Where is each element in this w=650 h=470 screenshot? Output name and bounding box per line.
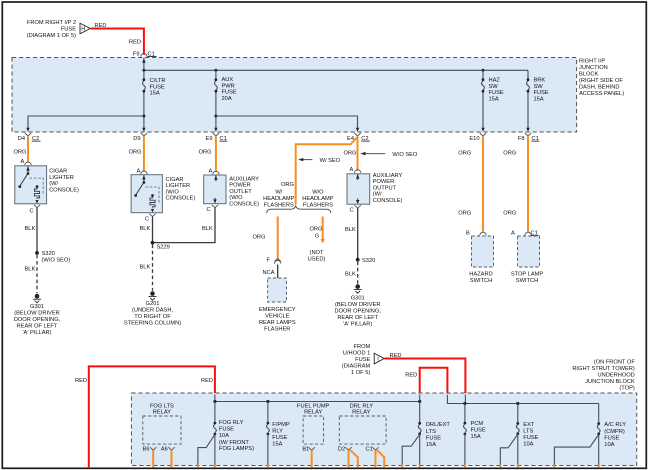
svg-text:VEHICLE: VEHICLE: [265, 314, 290, 320]
svg-text:BLK: BLK: [25, 226, 36, 232]
svg-text:FUSE: FUSE: [471, 428, 486, 434]
svg-text:'A' PILLAR): 'A' PILLAR): [343, 321, 372, 327]
wire ORG E4 branch to headlamp flashers: [296, 137, 358, 205]
svg-text:FUSE: FUSE: [604, 436, 619, 442]
svg-text:15A: 15A: [150, 91, 160, 97]
svg-text:B1: B1: [302, 447, 309, 453]
svg-text:15A: 15A: [489, 96, 499, 102]
svg-text:FOG LTS: FOG LTS: [150, 403, 174, 409]
svg-text:LIGHTER: LIGHTER: [166, 183, 191, 189]
wire BLK dashed to G201: [152, 245, 154, 291]
svg-text:BLK: BLK: [140, 265, 151, 271]
svg-text:LTS: LTS: [523, 429, 533, 435]
svg-text:RIGHT I/P: RIGHT I/P: [579, 59, 605, 65]
svg-text:FUSE: FUSE: [150, 84, 165, 90]
svg-text:(BELOW DRIVER: (BELOW DRIVER: [335, 302, 381, 308]
svg-text:POWER: POWER: [229, 183, 251, 189]
exit F8 / C1: [526, 128, 529, 132]
svg-text:ORG: ORG: [129, 150, 142, 156]
connector socket at F9 entry: [141, 54, 147, 57]
svg-text:DOOR OPENING,: DOOR OPENING,: [14, 317, 61, 323]
svg-text:CONSOLE): CONSOLE): [166, 196, 196, 202]
node junction entry: [142, 69, 145, 72]
svg-text:HEADLAMP: HEADLAMP: [302, 196, 333, 202]
hazard switch (dashed box): [472, 236, 494, 267]
svg-text:W/ SEO: W/ SEO: [320, 158, 341, 164]
svg-text:EMERGENCY: EMERGENCY: [259, 307, 296, 313]
svg-text:FUSE: FUSE: [426, 436, 441, 442]
svg-text:ORG: ORG: [458, 151, 471, 157]
svg-text:A: A: [209, 169, 213, 175]
wire red from triangle H to C1 entry: [91, 29, 144, 55]
svg-text:S229: S229: [157, 245, 170, 251]
svg-text:HEADLAMP: HEADLAMP: [263, 196, 294, 202]
svg-text:ORG: ORG: [310, 226, 323, 232]
svg-text:RIGHT STRUT TOWER): RIGHT STRUT TOWER): [572, 366, 635, 372]
svg-text:JUNCTION: JUNCTION: [579, 65, 608, 71]
svg-text:HAZ: HAZ: [489, 78, 501, 84]
svg-text:LIGHTER: LIGHTER: [49, 175, 74, 181]
svg-text:FUSE: FUSE: [61, 27, 76, 33]
svg-text:E9: E9: [206, 136, 213, 142]
svg-text:DRL/EXT: DRL/EXT: [426, 422, 451, 428]
svg-text:UNDERHOOD: UNDERHOOD: [598, 372, 635, 378]
wire ORG D4 to cigar lighter 1: [27, 137, 29, 163]
svg-text:E10: E10: [469, 136, 479, 142]
svg-text:RED: RED: [129, 40, 141, 46]
svg-text:ORG: ORG: [253, 234, 266, 240]
wire ORG to emergency flasher: [277, 217, 279, 261]
svg-text:U/HOOD 1: U/HOOD 1: [343, 351, 371, 357]
svg-text:(CMPR): (CMPR): [604, 429, 625, 435]
svg-text:FLASHERS: FLASHERS: [264, 203, 294, 209]
svg-text:FROM: FROM: [354, 344, 371, 350]
svg-text:F: F: [267, 258, 271, 264]
svg-text:DRL RLY: DRL RLY: [350, 403, 374, 409]
svg-text:A6: A6: [161, 447, 168, 453]
svg-text:REAR LAMPS: REAR LAMPS: [259, 320, 296, 326]
node junction below C/LTR fuse: [142, 115, 145, 118]
svg-text:G301: G301: [30, 304, 44, 310]
svg-text:SW: SW: [534, 84, 544, 90]
wire ORG E9 to aux power outlet: [215, 137, 217, 172]
splice S229: [151, 241, 155, 245]
svg-text:20A: 20A: [222, 96, 232, 102]
cigar lighter 1 (W/ CONSOLE) box: [15, 166, 47, 204]
wire ORG from A6: [171, 450, 173, 467]
stop lamp switch (dashed box): [518, 236, 540, 267]
svg-text:(BELOW DRIVER: (BELOW DRIVER: [14, 310, 60, 316]
svg-text:G301: G301: [351, 295, 365, 301]
annotation W/ SEO: [302, 159, 312, 161]
svg-text:BRK: BRK: [534, 78, 546, 84]
svg-text:FROM RIGHT I/P 2: FROM RIGHT I/P 2: [27, 20, 76, 26]
brace splitting the two options: [267, 206, 331, 213]
wire branch to D4: [28, 116, 144, 129]
svg-text:1 OF 5): 1 OF 5): [351, 370, 370, 376]
svg-text:DOOR OPENING,: DOOR OPENING,: [334, 308, 381, 314]
svg-text:F9: F9: [133, 51, 140, 57]
svg-text:POWER: POWER: [373, 179, 395, 185]
svg-text:BLK: BLK: [202, 226, 213, 232]
svg-text:HAZARD: HAZARD: [469, 271, 492, 277]
svg-text:ORG: ORG: [281, 182, 294, 188]
annotation W/O SEO: [365, 153, 386, 155]
svg-text:AUX: AUX: [222, 77, 234, 83]
svg-text:FUSE: FUSE: [222, 90, 237, 96]
fuse A/C RLY (CMPR) FUSE 10A: [598, 404, 600, 423]
exit D9: [142, 128, 145, 132]
svg-text:CONSOLE): CONSOLE): [229, 201, 259, 207]
svg-text:REAR OF LEFT: REAR OF LEFT: [337, 315, 378, 321]
fuse C/LTR FUSE 15A: [143, 70, 145, 78]
wire BLK from aux outlet joining S229: [154, 208, 215, 243]
node junction haz tap: [482, 69, 485, 72]
wire red loop: [420, 368, 448, 396]
svg-text:ORG: ORG: [199, 150, 212, 156]
exit D4 / C2: [26, 128, 29, 132]
svg-text:BLK: BLK: [345, 271, 356, 277]
entry wire arrow into block: [143, 58, 145, 71]
svg-text:15A: 15A: [471, 434, 481, 440]
svg-text:RELAY: RELAY: [352, 410, 370, 416]
ground G301 left: [35, 294, 40, 299]
node junction below AUX fuse: [214, 115, 217, 118]
svg-text:D2: D2: [338, 447, 345, 453]
svg-text:C: C: [30, 209, 34, 215]
svg-text:CONSOLE): CONSOLE): [373, 198, 403, 204]
svg-text:RED: RED: [405, 372, 417, 378]
svg-text:(UNDER DASH,: (UNDER DASH,: [132, 308, 173, 314]
svg-text:D9: D9: [133, 136, 140, 142]
svg-text:D4: D4: [18, 136, 25, 142]
svg-text:(DIAGRAM 1 OF 5): (DIAGRAM 1 OF 5): [27, 33, 76, 39]
svg-text:(ON FRONT OF: (ON FRONT OF: [594, 359, 635, 365]
svg-text:STOP LAMP: STOP LAMP: [511, 271, 544, 277]
fuse EXT LTS FUSE 10A: [517, 404, 519, 423]
svg-text:S320: S320: [362, 258, 375, 264]
svg-text:C1: C1: [366, 447, 373, 453]
svg-text:ACCESS PANEL): ACCESS PANEL): [579, 91, 624, 97]
svg-text:W/O: W/O: [312, 190, 324, 196]
svg-text:BLK: BLK: [140, 226, 151, 232]
wire ORG E10 to hazard switch: [482, 137, 484, 233]
wire red stubs into block: [215, 395, 466, 404]
wire ORG D9 to cigar lighter 2: [143, 137, 145, 172]
svg-text:RED: RED: [201, 378, 213, 384]
svg-text:B6: B6: [143, 447, 150, 453]
svg-text:A: A: [21, 159, 25, 165]
svg-text:(DIAGRAM: (DIAGRAM: [342, 364, 371, 370]
splice S320 (W/O SEO): [35, 251, 39, 255]
svg-text:A: A: [137, 168, 141, 174]
fuse BRK SW FUSE 15A: [527, 70, 529, 78]
svg-text:OUTPUT: OUTPUT: [373, 185, 397, 191]
svg-text:S320: S320: [42, 251, 55, 257]
svg-text:CIGAR: CIGAR: [166, 177, 184, 183]
svg-text:RLY: RLY: [272, 429, 283, 435]
svg-text:G: G: [315, 233, 319, 239]
svg-text:W/O SEO: W/O SEO: [392, 152, 418, 158]
svg-text:PCM: PCM: [471, 421, 484, 427]
fuse DRL/EXT LTS FUSE 15A: [419, 402, 421, 423]
svg-text:10A: 10A: [523, 442, 533, 448]
svg-text:C/LTR: C/LTR: [150, 78, 166, 84]
svg-text:PWR: PWR: [222, 83, 235, 89]
svg-text:(W/: (W/: [49, 181, 58, 187]
svg-text:'A' PILLAR): 'A' PILLAR): [22, 330, 51, 336]
bus wire across block: [144, 69, 528, 71]
svg-text:(W/O: (W/O: [166, 189, 180, 195]
svg-text:AUXILIARY: AUXILIARY: [229, 176, 259, 182]
svg-text:(W/O SEO): (W/O SEO): [42, 258, 71, 264]
svg-text:BLK: BLK: [25, 267, 36, 273]
off-page connector triangle I: [374, 353, 384, 364]
svg-text:(W/O: (W/O: [229, 195, 243, 201]
node junction aux tap: [214, 69, 217, 72]
svg-text:BLOCK: BLOCK: [579, 72, 598, 78]
wire BLK aux output to S320: [357, 208, 359, 260]
svg-text:JUNCTION BLOCK: JUNCTION BLOCK: [585, 379, 635, 385]
fuse HAZ SW FUSE 15A: [482, 70, 484, 78]
fuse PCM FUSE 15A: [464, 404, 466, 422]
fuse AUX PWR FUSE 20A: [215, 70, 217, 78]
svg-text:C: C: [207, 207, 211, 213]
wire ORG not used branch: [322, 217, 324, 240]
svg-text:15A: 15A: [272, 441, 282, 447]
svg-text:ORG: ORG: [14, 150, 27, 156]
exit E4 / C2: [356, 128, 359, 132]
auxiliary power output (W/ CONSOLE) box: [347, 174, 370, 204]
svg-text:C: C: [350, 208, 354, 214]
svg-text:OUTLET: OUTLET: [229, 189, 252, 195]
svg-text:A: A: [350, 167, 354, 173]
svg-text:(W/ FRONT: (W/ FRONT: [219, 440, 250, 446]
svg-text:FUSE: FUSE: [534, 90, 549, 96]
wire ORG from B6: [152, 450, 154, 467]
svg-text:(NOT: (NOT: [310, 250, 324, 256]
wire BLK cigar1 to S320: [36, 208, 38, 253]
svg-text:G201: G201: [146, 301, 160, 307]
svg-text:F/PMP: F/PMP: [272, 422, 290, 428]
svg-text:FOG LAMPS): FOG LAMPS): [219, 446, 254, 452]
wire red from triangle I into block: [385, 359, 466, 396]
svg-text:FOG RLY: FOG RLY: [219, 420, 244, 426]
svg-text:BLK: BLK: [345, 227, 356, 233]
wire ORG E4 to aux power output: [357, 137, 359, 171]
svg-text:10A: 10A: [219, 433, 229, 439]
wire branch to E4: [216, 116, 358, 129]
svg-text:LTS: LTS: [426, 429, 436, 435]
svg-text:RELAY: RELAY: [153, 410, 171, 416]
wire bus 2: [447, 395, 598, 404]
svg-text:ORG: ORG: [458, 211, 471, 217]
svg-text:FLASHERS: FLASHERS: [303, 203, 333, 209]
right I/P junction block (dashed): [12, 58, 577, 133]
svg-text:AUXILIARY: AUXILIARY: [373, 173, 403, 179]
emergency vehicle rear lamps flasher (dashed box): [268, 278, 287, 302]
svg-text:ORG: ORG: [503, 151, 516, 157]
underhood junction block (dashed): [131, 393, 636, 466]
svg-text:A/C RLY: A/C RLY: [604, 422, 626, 428]
svg-text:C: C: [145, 216, 149, 222]
svg-text:FUSE: FUSE: [219, 427, 234, 433]
wire ORG F8 to stop lamp switch: [527, 137, 529, 233]
cigar lighter 2 (W/O CONSOLE) box: [131, 175, 162, 213]
svg-text:(RIGHT SIDE OF: (RIGHT SIDE OF: [579, 78, 623, 84]
svg-text:CONSOLE): CONSOLE): [49, 187, 79, 193]
splice S320 right: [356, 258, 360, 262]
svg-text:NCA: NCA: [263, 270, 275, 276]
svg-text:ORG: ORG: [344, 151, 357, 157]
svg-text:USED): USED): [308, 257, 326, 263]
svg-text:FUSE: FUSE: [523, 435, 538, 441]
svg-text:FLASHER: FLASHER: [264, 327, 290, 333]
svg-text:SWITCH: SWITCH: [516, 278, 538, 284]
wire BLK dashed to G301 right: [357, 262, 359, 284]
svg-text:SW: SW: [489, 84, 499, 90]
svg-text:STEERING COLUMN): STEERING COLUMN): [124, 321, 181, 327]
svg-text:RED: RED: [75, 378, 87, 384]
svg-text:FUSE: FUSE: [489, 90, 504, 96]
svg-text:SWITCH: SWITCH: [470, 278, 492, 284]
wires ORG from D2: [348, 450, 350, 467]
svg-text:(W/: (W/: [373, 192, 382, 198]
svg-text:FUSE: FUSE: [355, 357, 370, 363]
wire bus 1: [215, 401, 420, 403]
wire BLK cigar2 to S229: [152, 217, 154, 243]
svg-text:TO RIGHT OF: TO RIGHT OF: [134, 314, 171, 320]
svg-text:W/: W/: [275, 190, 282, 196]
auxiliary power outlet (W/O CONSOLE) box: [204, 175, 226, 204]
svg-text:CIGAR: CIGAR: [49, 169, 67, 175]
fuse F/PMP RLY FUSE 15A: [267, 402, 269, 422]
svg-text:15A: 15A: [426, 442, 436, 448]
svg-text:F8: F8: [518, 136, 525, 142]
ground G301 right: [355, 284, 360, 289]
svg-text:EXT: EXT: [523, 422, 535, 428]
fuse FOG RLY FUSE 10A: [214, 402, 216, 422]
exit E10: [481, 128, 484, 132]
off-page connector triangle H: [80, 23, 90, 34]
ground G201: [150, 291, 155, 296]
svg-text:15A: 15A: [534, 96, 544, 102]
wires ORG from C1: [375, 450, 377, 467]
wire BLK dashed to G301: [36, 255, 38, 293]
svg-text:FUSE: FUSE: [272, 435, 287, 441]
svg-text:ORG: ORG: [503, 211, 516, 217]
svg-text:DASH, BEHIND: DASH, BEHIND: [579, 85, 619, 91]
svg-text:10A: 10A: [604, 442, 614, 448]
wire red feed at left: [89, 366, 215, 467]
exit E9 / C1: [214, 128, 217, 132]
svg-text:B: B: [466, 230, 470, 236]
svg-text:H: H: [81, 27, 85, 33]
svg-text:REAR OF LEFT: REAR OF LEFT: [17, 323, 58, 329]
svg-text:RELAY: RELAY: [304, 410, 322, 416]
svg-text:FUEL PUMP: FUEL PUMP: [297, 403, 330, 409]
svg-text:(TOP): (TOP): [619, 385, 634, 391]
svg-text:A: A: [511, 230, 515, 236]
